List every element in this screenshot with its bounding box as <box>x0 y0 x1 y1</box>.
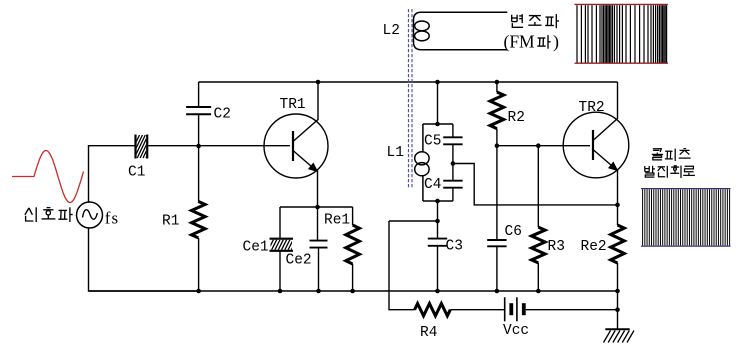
wire Re1 to ground bus <box>352 264 354 291</box>
transistor TR1 <box>264 114 328 178</box>
wire C5 to tap <box>452 144 454 180</box>
capacitor C5 <box>443 136 462 138</box>
wire R1 to ground bus <box>198 238 200 291</box>
node junction R2 top <box>495 80 500 85</box>
node junction C2-R1-base <box>196 144 201 149</box>
wire TR1 emitter down <box>317 170 319 207</box>
wire emitter node rail <box>280 206 353 208</box>
svg-text:C5: C5 <box>424 134 441 150</box>
wire R3 to ground bus <box>537 263 539 291</box>
svg-text:R1: R1 <box>162 214 179 230</box>
wire source top <box>89 146 136 203</box>
label 발진회로 <box>644 166 646 172</box>
capacitor C1 (hatched) <box>134 135 136 159</box>
wire C3 to ground bus <box>437 246 439 291</box>
wire bus to tank top <box>437 82 439 124</box>
node junction Re2-bus <box>615 289 620 294</box>
capacitor C6 <box>487 239 506 241</box>
node junction tank bottom <box>435 199 440 204</box>
wire TR2 emitter down <box>617 169 619 225</box>
node junction R3 top <box>536 143 541 148</box>
wire tank bottom to C3 node <box>437 201 439 238</box>
svg-text:TR1: TR1 <box>280 97 306 113</box>
node junction Re1-bus <box>350 289 355 294</box>
svg-text:C2: C2 <box>214 107 231 123</box>
svg-text:L1: L1 <box>387 145 404 161</box>
label 신호파 <box>25 208 29 215</box>
svg-text:Ce1: Ce1 <box>243 240 269 256</box>
svg-text:C4: C4 <box>424 177 441 193</box>
transformer core (dashed) <box>408 9 410 188</box>
wire to ground <box>617 291 619 329</box>
wire emitter rail to Ce1 <box>279 207 281 239</box>
wire source bottom <box>89 228 199 291</box>
wire bus to R2 <box>496 82 498 92</box>
wire emitter rail to Ce2 <box>317 207 319 240</box>
wire R4 branch <box>389 221 415 310</box>
svg-text:TR2: TR2 <box>579 100 605 116</box>
wire Re2 to ground bus <box>617 263 619 291</box>
wire emitter rail to Re1 <box>352 207 354 225</box>
wire R4 to battery <box>450 309 504 311</box>
signal source fs <box>77 202 103 228</box>
capacitor C3 <box>428 238 447 240</box>
wire C3 node to R4 branch <box>389 220 438 222</box>
svg-text:L2: L2 <box>383 23 400 39</box>
ground (earth) <box>605 328 629 330</box>
node junction tank feed <box>435 80 440 85</box>
wire base node to R1 <box>198 146 200 201</box>
resistor Re1 <box>346 225 360 264</box>
node junction emitter rail <box>315 205 320 210</box>
wire tank top side <box>423 123 453 125</box>
wire Ce2 to ground bus <box>318 248 320 291</box>
resistor R1 <box>192 201 206 238</box>
wire top supply bus <box>199 81 618 83</box>
wire ground bus <box>89 290 618 292</box>
node junction C3-bus <box>435 289 440 294</box>
label 변조파 <box>511 15 513 22</box>
wire base rail to R3 <box>537 146 539 227</box>
wire TR2 base rail <box>497 145 590 147</box>
capacitor C2 <box>186 106 211 108</box>
svg-text:C1: C1 <box>128 165 145 181</box>
wire C6 to ground bus <box>496 246 498 291</box>
FM modulated wave pattern <box>575 3 669 5</box>
node junction emitter-feedback <box>615 203 620 208</box>
wire C4 to tank bottom <box>452 188 454 201</box>
node junction base rail left <box>495 143 500 148</box>
node junction C6-bus <box>495 289 500 294</box>
node junction R3-bus <box>536 289 541 294</box>
wire C1 to TR1 base <box>147 145 290 147</box>
node junction Ce2-bus <box>316 289 321 294</box>
wire C2 column upper <box>198 82 200 107</box>
wire battery to ground column <box>526 309 618 311</box>
svg-text:Vcc: Vcc <box>503 323 529 339</box>
resistor R4 <box>415 304 451 316</box>
svg-text:Re1: Re1 <box>324 213 350 229</box>
node junction tank top <box>435 122 440 127</box>
svg-text:R3: R3 <box>548 239 565 255</box>
wire tank tap to emitter <box>453 164 618 205</box>
inductor L1 <box>422 124 424 152</box>
node junction tank tap <box>451 161 456 166</box>
battery Vcc <box>504 297 506 321</box>
svg-text:C3: C3 <box>446 239 463 255</box>
node junction R1-bus <box>196 289 201 294</box>
oscillator wave pattern <box>641 188 731 190</box>
wire tank right upper <box>452 124 454 137</box>
wire tank bottom side <box>423 200 453 202</box>
capacitor Ce2 <box>310 240 328 242</box>
node junction TR1 collector <box>316 80 321 85</box>
resistor Re2 <box>611 225 625 263</box>
inductor L2 <box>414 12 508 49</box>
resistor R2 <box>490 92 504 129</box>
svg-text:): ) <box>553 32 559 53</box>
node junction battery-ground column <box>615 307 620 312</box>
svg-text:Ce2: Ce2 <box>286 253 312 269</box>
svg-text:Re2: Re2 <box>581 239 607 255</box>
svg-text:fs: fs <box>105 209 119 228</box>
svg-text:R2: R2 <box>508 110 525 126</box>
svg-text:(FM: (FM <box>504 32 536 52</box>
wire C2 to base node <box>198 114 200 146</box>
capacitor C4 <box>443 180 462 182</box>
wire R2 to base rail <box>496 129 498 146</box>
node junction Ce1-bus <box>278 289 283 294</box>
label 콜피츠 <box>653 149 662 152</box>
svg-text:C6: C6 <box>505 224 522 240</box>
wire Ce1 to ground bus <box>279 251 281 291</box>
transistor TR2 <box>563 112 629 178</box>
capacitor Ce1 (hatched) <box>270 238 294 240</box>
svg-text:R4: R4 <box>420 325 437 341</box>
signal waveform (red sine) <box>12 151 84 203</box>
resistor R3 <box>532 227 546 263</box>
wire base rail to C6 <box>496 146 498 240</box>
node junction C3 top <box>435 219 440 224</box>
